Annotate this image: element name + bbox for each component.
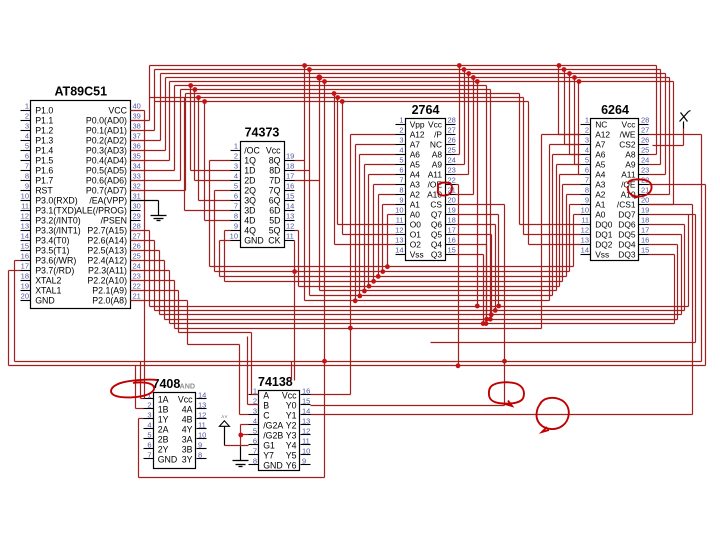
svg-text:13: 13 (198, 401, 206, 410)
svg-text:13: 13 (581, 236, 589, 245)
svg-text:6: 6 (399, 166, 403, 175)
svg-text:10: 10 (21, 192, 29, 201)
svg-text:A2: A2 (595, 189, 606, 199)
svg-text:8: 8 (585, 186, 589, 195)
svg-text:38: 38 (133, 122, 141, 131)
svg-text:3: 3 (585, 136, 589, 145)
svg-text:O1: O1 (410, 229, 422, 239)
svg-text:P0.6(AD6): P0.6(AD6) (86, 175, 127, 185)
svg-text:P2.3(A11): P2.3(A11) (88, 265, 127, 275)
svg-text:18: 18 (448, 216, 456, 225)
svg-text:40: 40 (133, 102, 141, 111)
svg-text:7: 7 (399, 176, 403, 185)
svg-text:13: 13 (302, 417, 310, 426)
svg-text:27: 27 (448, 126, 456, 135)
svg-text:A9: A9 (625, 159, 636, 169)
svg-text:3: 3 (25, 122, 29, 131)
svg-text:21: 21 (133, 292, 141, 301)
svg-text:3B: 3B (182, 444, 193, 454)
svg-text:14: 14 (395, 246, 403, 255)
svg-text:3: 3 (399, 136, 403, 145)
svg-text:15: 15 (641, 246, 649, 255)
svg-text:A7: A7 (410, 139, 421, 149)
svg-text:P1.1: P1.1 (35, 115, 53, 125)
svg-text:4Q: 4Q (244, 225, 256, 235)
svg-text:P2.5(A13): P2.5(A13) (87, 245, 127, 255)
svg-text:7: 7 (585, 176, 589, 185)
svg-text:B: B (263, 400, 269, 410)
svg-text:8: 8 (399, 186, 403, 195)
svg-text:GND: GND (244, 235, 264, 245)
svg-text:4: 4 (147, 421, 151, 430)
svg-text:18: 18 (21, 272, 29, 281)
svg-text:P1.7: P1.7 (35, 175, 53, 185)
svg-text:2D: 2D (244, 175, 255, 185)
svg-text:A12: A12 (410, 129, 425, 139)
svg-text:DQ6: DQ6 (618, 219, 636, 229)
svg-text:37: 37 (133, 132, 141, 141)
svg-text:10: 10 (581, 206, 589, 215)
svg-text:O0: O0 (410, 219, 422, 229)
svg-text:P2.6(A14): P2.6(A14) (87, 235, 127, 245)
svg-text:7: 7 (25, 162, 29, 171)
svg-text:13: 13 (395, 236, 403, 245)
svg-text:6: 6 (147, 441, 151, 450)
svg-text:Y3: Y3 (286, 430, 297, 440)
svg-text:2A: 2A (158, 424, 169, 434)
svg-text:15: 15 (302, 397, 310, 406)
svg-text:P3.4(T0): P3.4(T0) (35, 235, 69, 245)
svg-text:2764: 2764 (412, 103, 440, 117)
svg-text:8Q: 8Q (269, 155, 281, 165)
svg-text:P3.1(TXD): P3.1(TXD) (35, 205, 77, 215)
svg-text:GND: GND (158, 454, 178, 464)
svg-text:/WE: /WE (620, 129, 636, 139)
svg-text:A5: A5 (410, 159, 421, 169)
svg-text:30: 30 (133, 202, 141, 211)
svg-text:A5: A5 (595, 159, 606, 169)
svg-text:11: 11 (396, 216, 404, 225)
svg-text:Y1: Y1 (286, 410, 297, 420)
svg-text:9: 9 (399, 196, 403, 205)
svg-text:24: 24 (448, 156, 456, 165)
svg-text:10: 10 (198, 431, 206, 440)
svg-text:Q3: Q3 (431, 249, 443, 259)
svg-text:G1: G1 (263, 440, 275, 450)
svg-text:10: 10 (230, 232, 238, 241)
svg-text:33: 33 (133, 172, 141, 181)
svg-text:4Y: 4Y (182, 424, 193, 434)
svg-text:12: 12 (581, 226, 589, 235)
svg-text:9: 9 (585, 196, 589, 205)
svg-text:5Q: 5Q (269, 225, 281, 235)
svg-text:23: 23 (641, 166, 649, 175)
svg-text:DQ2: DQ2 (595, 239, 613, 249)
svg-text:3: 3 (234, 162, 238, 171)
svg-text:2: 2 (234, 152, 238, 161)
svg-text:20: 20 (448, 196, 456, 205)
svg-text:24: 24 (133, 262, 141, 271)
svg-text:GND: GND (263, 460, 283, 470)
svg-text:4: 4 (25, 132, 29, 141)
svg-text:DQ3: DQ3 (618, 249, 636, 259)
svg-text:Y0: Y0 (286, 400, 297, 410)
svg-text:AND: AND (180, 382, 196, 391)
svg-text:31: 31 (133, 192, 141, 201)
svg-text:15: 15 (448, 246, 456, 255)
svg-text:19: 19 (641, 206, 649, 215)
svg-text:5: 5 (399, 156, 403, 165)
svg-text:A0: A0 (595, 209, 606, 219)
svg-text:9: 9 (234, 222, 238, 231)
svg-text:/OC: /OC (244, 145, 260, 155)
svg-text:1Y: 1Y (158, 414, 169, 424)
svg-text:11: 11 (21, 202, 29, 211)
svg-text:Y6: Y6 (286, 460, 297, 470)
svg-text:A7: A7 (595, 139, 606, 149)
svg-text:1D: 1D (244, 165, 255, 175)
svg-text:18: 18 (641, 216, 649, 225)
svg-text:16: 16 (302, 387, 310, 396)
svg-text:1: 1 (399, 116, 403, 125)
svg-text:29: 29 (133, 212, 141, 221)
svg-text:1: 1 (585, 116, 589, 125)
svg-text:74138: 74138 (258, 375, 293, 389)
svg-text:A9: A9 (432, 159, 443, 169)
svg-text:17: 17 (21, 262, 29, 271)
svg-text:2: 2 (585, 126, 589, 135)
svg-text:5: 5 (585, 156, 589, 165)
svg-text:P0.4(AD4): P0.4(AD4) (86, 155, 127, 165)
svg-text:A0: A0 (410, 209, 421, 219)
svg-text:23: 23 (133, 272, 141, 281)
svg-text:8: 8 (253, 457, 257, 466)
svg-text:XTAL1: XTAL1 (35, 285, 61, 295)
svg-text:AT89C51: AT89C51 (54, 85, 107, 99)
svg-text:28: 28 (133, 222, 141, 231)
svg-text:P0.5(AD5): P0.5(AD5) (86, 165, 127, 175)
svg-text:Vcc: Vcc (266, 145, 281, 155)
svg-text:/G2B: /G2B (263, 430, 283, 440)
svg-text:Vss: Vss (410, 249, 424, 259)
svg-text:P1.2: P1.2 (35, 125, 53, 135)
svg-text:3: 3 (147, 411, 151, 420)
svg-text:DQ5: DQ5 (618, 229, 636, 239)
svg-text:Vcc: Vcc (622, 119, 636, 129)
svg-text:XTAL2: XTAL2 (35, 275, 61, 285)
svg-text:15: 15 (21, 242, 29, 251)
svg-text:1Q: 1Q (244, 155, 256, 165)
svg-text:8: 8 (198, 451, 202, 460)
svg-text:8: 8 (234, 212, 238, 221)
svg-text:28: 28 (641, 116, 649, 125)
svg-text:P3.5(T1): P3.5(T1) (35, 245, 69, 255)
svg-text:A11: A11 (428, 169, 443, 179)
svg-text:/P: /P (434, 129, 442, 139)
svg-text:P1.3: P1.3 (35, 135, 53, 145)
svg-text:19: 19 (286, 152, 294, 161)
svg-text:Vss: Vss (595, 249, 609, 259)
svg-text:6Q: 6Q (269, 195, 281, 205)
svg-text:6: 6 (234, 192, 238, 201)
svg-text:18: 18 (286, 162, 294, 171)
svg-text:2Q: 2Q (244, 185, 256, 195)
svg-text:A8: A8 (625, 149, 636, 159)
svg-text:3Y: 3Y (182, 454, 193, 464)
svg-text:13: 13 (21, 222, 29, 231)
svg-text:P1.6: P1.6 (35, 165, 53, 175)
svg-text:P1.5: P1.5 (35, 155, 53, 165)
svg-text:4D: 4D (244, 215, 255, 225)
svg-text:Q6: Q6 (431, 219, 443, 229)
svg-text:14: 14 (302, 407, 310, 416)
svg-text:NC: NC (595, 119, 607, 129)
svg-text:11: 11 (302, 437, 310, 446)
svg-text:8: 8 (25, 172, 29, 181)
svg-text:16: 16 (286, 182, 294, 191)
svg-text:A12: A12 (595, 129, 610, 139)
svg-text:CK: CK (268, 235, 280, 245)
svg-text:P2.7(A15): P2.7(A15) (87, 225, 127, 235)
svg-text:7Q: 7Q (269, 185, 281, 195)
svg-text:A6: A6 (410, 149, 421, 159)
svg-text:2: 2 (399, 126, 403, 135)
svg-text:4: 4 (585, 146, 589, 155)
svg-text:6264: 6264 (601, 103, 629, 117)
svg-text:3A: 3A (182, 434, 193, 444)
svg-text:RST: RST (35, 185, 53, 195)
svg-text:32: 32 (133, 182, 141, 191)
svg-text:A1: A1 (595, 199, 606, 209)
svg-text:17: 17 (286, 172, 294, 181)
svg-text:A3: A3 (410, 179, 421, 189)
svg-text:26: 26 (448, 136, 456, 145)
svg-text:Y7: Y7 (263, 450, 274, 460)
svg-text:16: 16 (21, 252, 29, 261)
svg-text:14: 14 (581, 246, 589, 255)
svg-text:DQ1: DQ1 (595, 229, 613, 239)
svg-text:10: 10 (395, 206, 403, 215)
svg-text:CS2: CS2 (619, 139, 636, 149)
svg-text:6: 6 (253, 437, 257, 446)
svg-text:1: 1 (25, 102, 29, 111)
svg-text:12: 12 (198, 411, 206, 420)
svg-text:Y5: Y5 (286, 450, 297, 460)
svg-text:7: 7 (253, 447, 257, 456)
svg-text:36: 36 (133, 142, 141, 151)
svg-text:5: 5 (234, 182, 238, 191)
svg-text:25: 25 (133, 252, 141, 261)
svg-text:P1.0: P1.0 (35, 105, 53, 115)
svg-text:22: 22 (133, 282, 141, 291)
svg-text:25: 25 (641, 146, 649, 155)
svg-text:3: 3 (253, 407, 257, 416)
svg-text:5D: 5D (269, 215, 280, 225)
svg-text:6D: 6D (269, 205, 280, 215)
svg-text:A3: A3 (595, 179, 606, 189)
svg-text:16: 16 (641, 236, 649, 245)
svg-text:11: 11 (198, 421, 206, 430)
svg-text:1B: 1B (158, 404, 169, 414)
svg-text:7: 7 (234, 202, 238, 211)
svg-text:25: 25 (448, 146, 456, 155)
svg-text:1A: 1A (158, 394, 169, 404)
svg-text:P3.7(/RD): P3.7(/RD) (35, 265, 74, 275)
svg-text:5: 5 (25, 142, 29, 151)
svg-text:2: 2 (147, 401, 151, 410)
svg-text:P3.6(/WR): P3.6(/WR) (35, 255, 76, 265)
svg-text:7D: 7D (269, 175, 280, 185)
svg-text:14: 14 (286, 202, 294, 211)
svg-text:2: 2 (25, 112, 29, 121)
svg-text:A: A (263, 390, 269, 400)
svg-text:9: 9 (25, 182, 29, 191)
svg-text:P0.1(AD1): P0.1(AD1) (86, 125, 127, 135)
svg-text:P3.0(RXD): P3.0(RXD) (35, 195, 78, 205)
svg-text:24: 24 (641, 156, 649, 165)
svg-text:23: 23 (448, 166, 456, 175)
svg-text:P2.4(A12): P2.4(A12) (87, 255, 127, 265)
svg-text:5: 5 (147, 431, 151, 440)
svg-text:13: 13 (286, 212, 294, 221)
svg-text:A11: A11 (621, 169, 636, 179)
svg-text:19: 19 (21, 282, 29, 291)
svg-text:15: 15 (286, 192, 294, 201)
svg-text:Y2: Y2 (286, 420, 297, 430)
svg-text:GND: GND (35, 295, 55, 305)
svg-text:4: 4 (253, 417, 257, 426)
svg-text:VCC: VCC (108, 105, 127, 115)
svg-text:27: 27 (133, 232, 141, 241)
svg-text:P0.7(AD7): P0.7(AD7) (86, 185, 127, 195)
svg-text:DQ7: DQ7 (618, 209, 636, 219)
svg-text:20: 20 (21, 292, 29, 301)
svg-text:A4: A4 (410, 169, 421, 179)
svg-text:C: C (263, 410, 270, 420)
svg-text:6: 6 (25, 152, 29, 161)
svg-text:P0.3(AD3): P0.3(AD3) (86, 145, 127, 155)
svg-text:9: 9 (302, 457, 306, 466)
svg-text:26: 26 (133, 242, 141, 251)
svg-text:3D: 3D (244, 205, 255, 215)
svg-text:12: 12 (302, 427, 310, 436)
svg-text:12: 12 (395, 226, 403, 235)
svg-text:4: 4 (399, 146, 403, 155)
svg-text:34: 34 (133, 162, 141, 171)
svg-text:8D: 8D (269, 165, 280, 175)
svg-text:Q7: Q7 (431, 209, 443, 219)
svg-text:DQ4: DQ4 (618, 239, 636, 249)
svg-text:A2: A2 (410, 189, 421, 199)
svg-text:9: 9 (198, 441, 202, 450)
svg-text:14: 14 (198, 391, 206, 400)
svg-text:/CS1: /CS1 (617, 199, 636, 209)
svg-text:/EA(VPP): /EA(VPP) (89, 195, 127, 205)
svg-text:7: 7 (147, 451, 151, 460)
svg-text:DQ0: DQ0 (595, 219, 613, 229)
svg-text:Vcc: Vcc (178, 394, 193, 404)
svg-text:P2.0(A8): P2.0(A8) (92, 295, 127, 305)
svg-text:39: 39 (133, 112, 141, 121)
svg-text:2B: 2B (158, 434, 169, 444)
svg-text:A1: A1 (410, 199, 421, 209)
svg-text:A6: A6 (595, 149, 606, 159)
svg-text:A8: A8 (432, 149, 443, 159)
svg-text:4A: 4A (182, 404, 193, 414)
svg-text:P3.2(/INT0): P3.2(/INT0) (35, 215, 81, 225)
svg-text:˄˅: ˄˅ (221, 415, 227, 421)
svg-text:26: 26 (641, 136, 649, 145)
svg-text:Y4: Y4 (286, 440, 297, 450)
svg-text:4B: 4B (182, 414, 193, 424)
svg-text:ALE(/PROG): ALE(/PROG) (76, 205, 127, 215)
svg-text:/PSEN: /PSEN (101, 215, 127, 225)
svg-text:10: 10 (302, 447, 310, 456)
svg-text:P3.3(/INT1): P3.3(/INT1) (35, 225, 81, 235)
svg-text:27: 27 (641, 126, 649, 135)
svg-text:P1.4: P1.4 (35, 145, 53, 155)
svg-text:12: 12 (286, 222, 294, 231)
svg-text:14: 14 (21, 232, 29, 241)
svg-text:11: 11 (581, 216, 589, 225)
svg-text:Q4: Q4 (431, 239, 443, 249)
svg-text:17: 17 (641, 226, 649, 235)
svg-text:16: 16 (448, 236, 456, 245)
svg-text:2Y: 2Y (158, 444, 169, 454)
svg-text:28: 28 (448, 116, 456, 125)
svg-text:Vcc: Vcc (282, 390, 297, 400)
svg-text:35: 35 (133, 152, 141, 161)
svg-text:19: 19 (448, 206, 456, 215)
svg-text:Vcc: Vcc (428, 119, 442, 129)
svg-text:P2.1(A9): P2.1(A9) (92, 285, 127, 295)
svg-text:17: 17 (448, 226, 456, 235)
svg-text:O2: O2 (410, 239, 422, 249)
svg-text:3Q: 3Q (244, 195, 256, 205)
svg-text:Q5: Q5 (431, 229, 443, 239)
svg-text:1: 1 (234, 142, 238, 151)
svg-text:11: 11 (286, 232, 294, 241)
svg-text:NC: NC (430, 139, 442, 149)
svg-text:5: 5 (253, 427, 257, 436)
svg-text:Vpp: Vpp (410, 119, 425, 129)
svg-text:P0.2(AD2): P0.2(AD2) (86, 135, 127, 145)
svg-text:P0.0(AD0): P0.0(AD0) (86, 115, 127, 125)
svg-text:74373: 74373 (245, 126, 280, 140)
svg-text:/G2A: /G2A (263, 420, 283, 430)
svg-text:4: 4 (234, 172, 238, 181)
svg-text:P2.2(A10): P2.2(A10) (87, 275, 127, 285)
svg-text:CS: CS (430, 199, 442, 209)
svg-text:6: 6 (585, 166, 589, 175)
svg-text:A4: A4 (595, 169, 606, 179)
svg-text:12: 12 (21, 212, 29, 221)
